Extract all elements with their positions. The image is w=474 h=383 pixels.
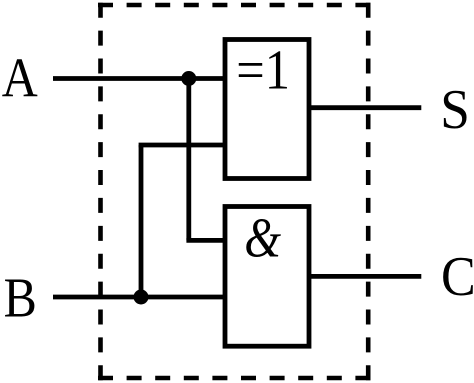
svg-text:B: B <box>4 268 37 329</box>
junction node on wire A <box>181 71 196 86</box>
svg-text:&: & <box>244 208 281 270</box>
wire: horizontal into AND pin 1 <box>186 238 225 243</box>
wire: vertical from B junction up <box>139 145 144 297</box>
wire: vertical from A junction down <box>186 79 191 241</box>
wire: input A to XOR pin 1 <box>53 76 225 81</box>
wire: input B to AND pin 2 <box>53 295 225 300</box>
wire: AND output to C <box>309 274 421 279</box>
svg-text:S: S <box>440 78 470 141</box>
half-adder module boundary (dashed box) <box>98 3 370 381</box>
wire: horizontal into XOR pin 2 <box>139 143 225 148</box>
junction node on wire B <box>134 290 149 305</box>
svg-text:A: A <box>2 48 38 109</box>
AND gate U2 body <box>225 207 309 347</box>
svg-text:C: C <box>441 245 474 307</box>
XOR gate U1 body <box>225 40 309 179</box>
wire: XOR output to S <box>309 105 421 110</box>
svg-text:=1: =1 <box>236 39 290 101</box>
